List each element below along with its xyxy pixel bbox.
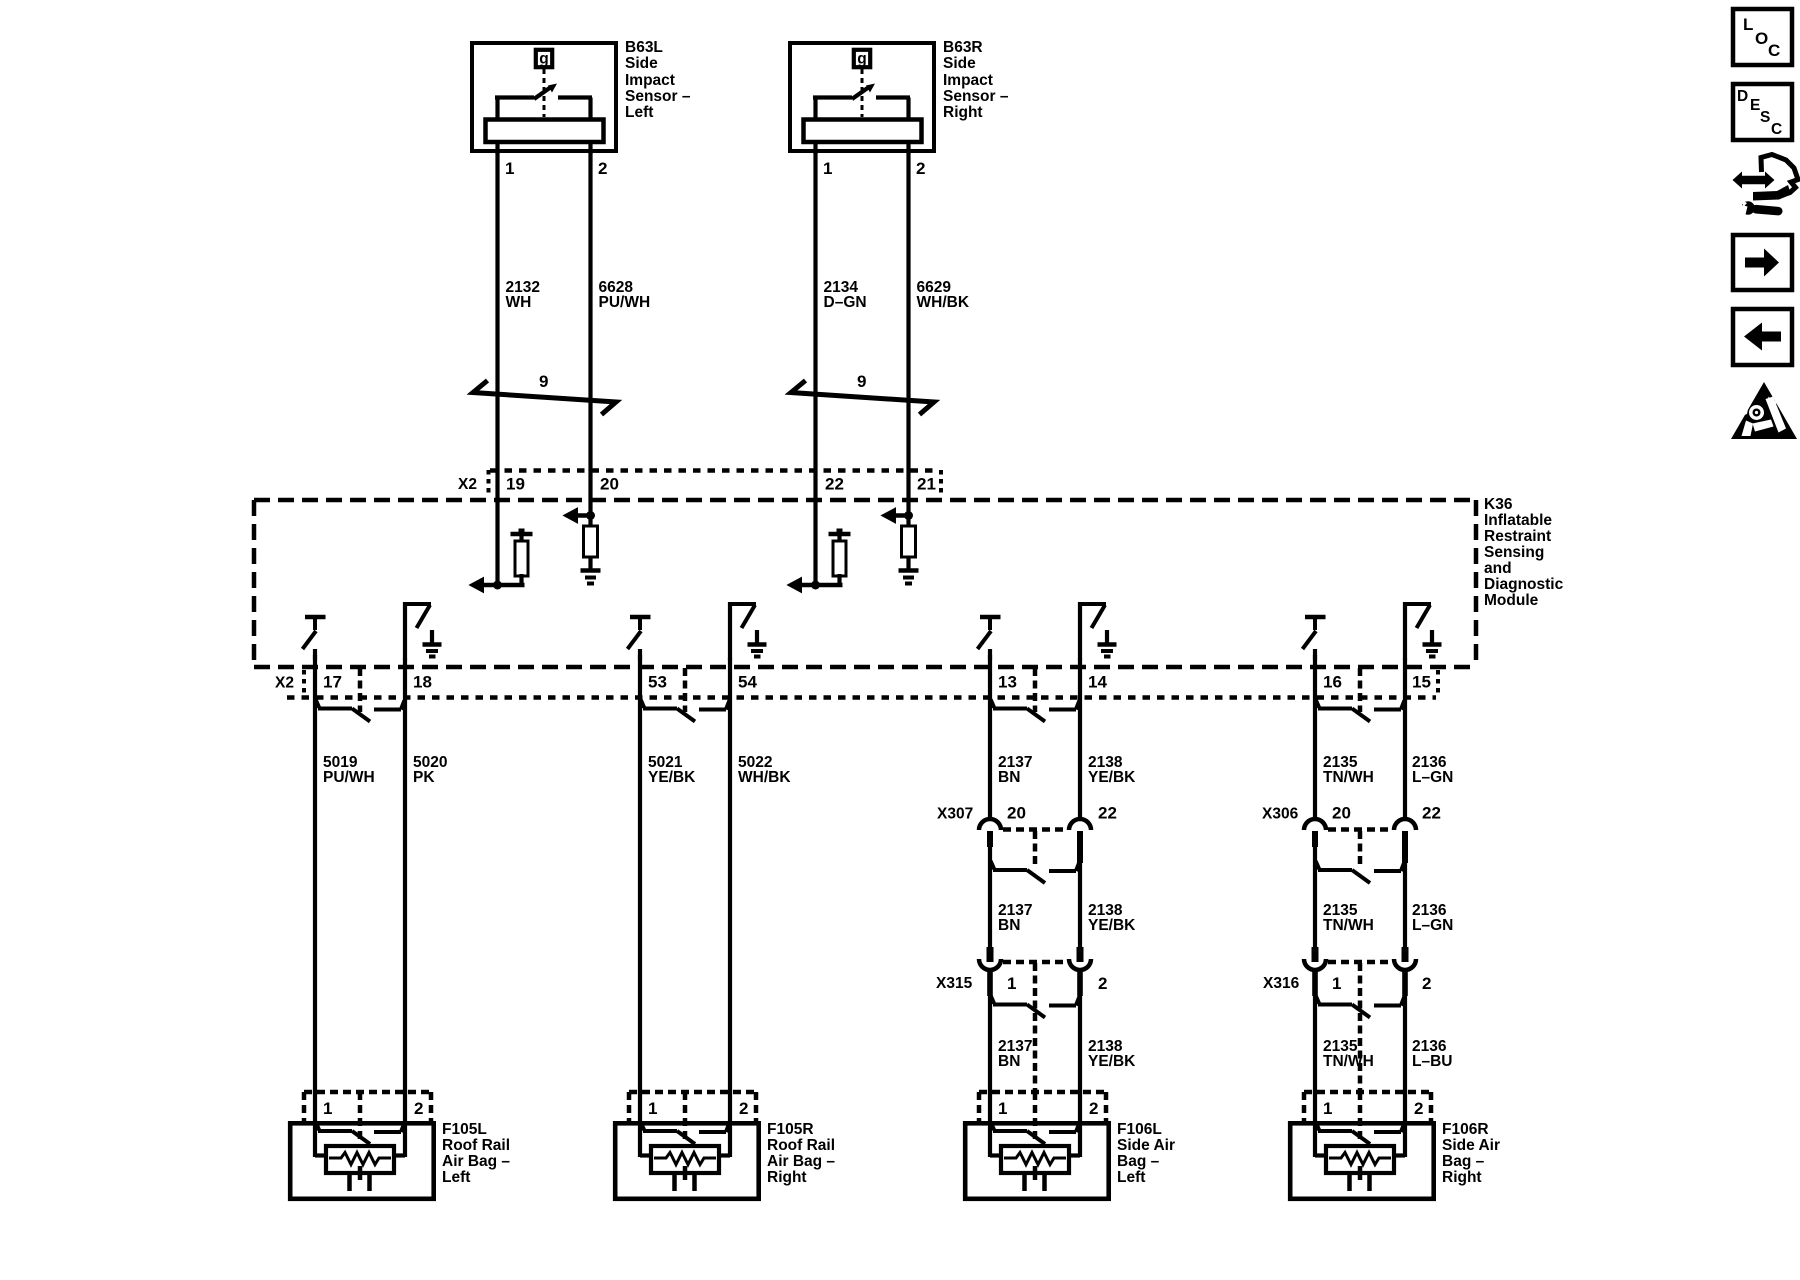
wire label 2137 BN row A: [998, 754, 1032, 786]
connector X2 lower left separator: [302, 670, 306, 694]
svg-text:YE/BK: YE/BK: [1088, 1053, 1136, 1070]
svg-text:22: 22: [1098, 804, 1117, 823]
svg-text:19: 19: [506, 475, 525, 494]
wire label 2135 TN/WH row C: [1323, 1038, 1374, 1070]
wire 2135 TN/WH segment 1: [1313, 655, 1317, 819]
X2 lower centre dashes col3: [1033, 668, 1038, 712]
svg-text:Bag –: Bag –: [1442, 1153, 1485, 1170]
icon forward arrow box: [1733, 235, 1792, 290]
svg-text:X2: X2: [275, 675, 294, 692]
svg-text:Sensor –: Sensor –: [625, 88, 691, 105]
svg-text:Side Air: Side Air: [1442, 1137, 1500, 1154]
X2 lower shorting bar col2: [641, 700, 730, 722]
connector X2 upper left separator: [487, 470, 491, 496]
svg-text:2: 2: [1422, 974, 1431, 993]
wire label 5019 PU/WH: [323, 754, 375, 786]
svg-text:L–GN: L–GN: [1412, 769, 1453, 786]
X2 lower shorting bar col3: [991, 700, 1080, 722]
svg-text:21: 21: [917, 475, 936, 494]
wire label 6629 WH/BK: [917, 279, 970, 311]
svg-text:Right: Right: [767, 1169, 807, 1186]
svg-text:X316: X316: [1263, 975, 1300, 992]
wire 2134 D-GN (B63R pin1 to K36 pin22): [813, 153, 817, 585]
svg-text:D: D: [1737, 88, 1748, 105]
twisted pair crossing 9 (left): [473, 381, 616, 415]
svg-text:F105R: F105R: [767, 1121, 814, 1138]
svg-text:Restraint: Restraint: [1484, 528, 1551, 545]
wire 2136 L-GN segment 1: [1403, 658, 1407, 819]
svg-text:Sensor –: Sensor –: [943, 88, 1009, 105]
svg-text:B63L: B63L: [625, 39, 663, 56]
svg-text:22: 22: [825, 475, 844, 494]
wire 5022 WH/BK: [728, 658, 732, 1094]
svg-text:BN: BN: [998, 769, 1020, 786]
K36 internal resistor to ground (pin 20): [564, 508, 601, 584]
icon DESC box: [1733, 84, 1792, 140]
wire 2138 YE/BK segment 3: [1078, 972, 1082, 1094]
wire label 2132 WH: [506, 279, 540, 311]
wire label 5022 WH/BK: [738, 754, 791, 786]
svg-text:O: O: [1755, 29, 1768, 48]
wire 2136 L-BU segment 3: [1403, 972, 1407, 1094]
svg-text:Roof Rail: Roof Rail: [442, 1137, 510, 1154]
svg-text:F105L: F105L: [442, 1121, 487, 1138]
icon LOC box: [1733, 9, 1792, 65]
svg-text:L–BU: L–BU: [1412, 1053, 1452, 1070]
twisted pair crossing 9 (right): [791, 381, 934, 415]
svg-text:X307: X307: [937, 806, 973, 823]
K36 module dashed box: [254, 500, 1476, 667]
svg-text:S: S: [1760, 109, 1770, 126]
svg-text:9: 9: [857, 372, 866, 391]
label B63L: [625, 39, 691, 121]
svg-text:Air Bag –: Air Bag –: [442, 1153, 510, 1170]
wire 2137 BN segment 1: [988, 655, 992, 819]
wire label 2136 L-GN row A: [1412, 754, 1453, 786]
wire label 2138 YE/BK row B: [1088, 902, 1136, 934]
K36 internal resistor with terminal (pin 22): [788, 529, 851, 593]
K36 deploy switch high side (pin 17): [303, 617, 326, 660]
svg-text:Sensing: Sensing: [1484, 544, 1544, 561]
wire label 2134 D-GN: [824, 279, 867, 311]
wire 6629 WH/BK (B63R pin2 to K36 pin21): [906, 153, 910, 517]
svg-text:PU/WH: PU/WH: [599, 294, 651, 311]
sensor B63L Side Impact Sensor Left: [472, 43, 616, 154]
svg-text:18: 18: [413, 673, 432, 692]
icon arrows and wrench: [1733, 155, 1799, 216]
svg-text:2: 2: [1098, 974, 1107, 993]
svg-text:TN/WH: TN/WH: [1323, 1053, 1374, 1070]
wire 2135 TN/WH segment 3: [1313, 972, 1317, 1094]
label F105R: [767, 1121, 835, 1186]
svg-text:L–GN: L–GN: [1412, 917, 1453, 934]
sensor B63R Side Impact Sensor Right: [790, 43, 934, 154]
icon back arrow box: [1733, 309, 1792, 365]
K36 deploy switch high side (pin 16): [1303, 617, 1326, 660]
wire label 2138 YE/BK row C: [1088, 1038, 1136, 1070]
wire label 2138 YE/BK row A: [1088, 754, 1136, 786]
svg-text:Left: Left: [442, 1169, 470, 1186]
wire 5019 PU/WH: [313, 655, 317, 1094]
connector X306: [1304, 819, 1416, 883]
connector X2 lower dotted line: [287, 695, 1436, 700]
svg-text:X315: X315: [936, 975, 973, 992]
svg-text:B63R: B63R: [943, 39, 983, 56]
svg-text:20: 20: [600, 475, 619, 494]
svg-text:WH/BK: WH/BK: [917, 294, 970, 311]
wire 6628 PU/WH (B63L pin2 to K36 pin20): [588, 153, 592, 517]
wire 2135 TN/WH segment 2: [1313, 831, 1317, 950]
X2 lower centre dashes col1: [358, 668, 363, 712]
svg-text:Side: Side: [625, 55, 658, 72]
svg-text:53: 53: [648, 673, 667, 692]
svg-text:9: 9: [539, 372, 548, 391]
connector X307: [979, 819, 1091, 883]
X2 lower shorting bar col4: [1316, 700, 1405, 722]
svg-text:PU/WH: PU/WH: [323, 769, 375, 786]
svg-text:X306: X306: [1262, 806, 1299, 823]
svg-text:F106R: F106R: [1442, 1121, 1489, 1138]
svg-text:1: 1: [505, 159, 514, 178]
svg-text:Impact: Impact: [625, 72, 675, 89]
wire label 2137 BN row B: [998, 902, 1032, 934]
wire 5020 PK: [403, 658, 407, 1094]
svg-text:L: L: [1743, 15, 1753, 34]
wire 2136 L-GN segment 2: [1403, 831, 1407, 950]
K36 deploy switch low side with ground (pin 14): [1078, 602, 1117, 660]
svg-text:Side Air: Side Air: [1117, 1137, 1175, 1154]
svg-text:2: 2: [598, 159, 607, 178]
air bag F105R Roof Rail Air Bag Right: [615, 1090, 759, 1199]
svg-text:WH/BK: WH/BK: [738, 769, 791, 786]
K36 deploy switch low side with ground (pin 54): [728, 602, 767, 660]
svg-text:Right: Right: [943, 104, 983, 121]
svg-text:TN/WH: TN/WH: [1323, 917, 1374, 934]
svg-text:BN: BN: [998, 1053, 1020, 1070]
wire label 2136 L-GN row B: [1412, 902, 1453, 934]
svg-text:TN/WH: TN/WH: [1323, 769, 1374, 786]
K36 internal resistor with terminal (pin 19): [470, 529, 533, 593]
svg-text:PK: PK: [413, 769, 435, 786]
svg-text:C: C: [1768, 41, 1780, 60]
K36 deploy switch low side with ground (pin 18): [403, 602, 442, 660]
connector X315: [979, 947, 1091, 1092]
svg-text:Diagnostic: Diagnostic: [1484, 576, 1564, 593]
wire 2138 YE/BK segment 2: [1078, 831, 1082, 950]
icon air bag warning triangle: [1731, 382, 1797, 439]
wire 2137 BN segment 3: [988, 972, 992, 1094]
svg-text:YE/BK: YE/BK: [1088, 917, 1136, 934]
wire 2137 BN segment 2: [988, 831, 992, 950]
svg-text:1: 1: [823, 159, 832, 178]
svg-text:1: 1: [1332, 974, 1341, 993]
svg-text:X2: X2: [458, 476, 477, 493]
svg-text:Left: Left: [625, 104, 653, 121]
K36 deploy switch low side with ground (pin 15): [1403, 602, 1442, 660]
svg-text:17: 17: [323, 673, 342, 692]
X2 lower centre dashes col2: [683, 668, 688, 712]
connector X2 lower right separator: [1436, 670, 1440, 694]
K36 deploy switch high side (pin 53): [628, 617, 651, 660]
svg-text:13: 13: [998, 673, 1017, 692]
svg-text:YE/BK: YE/BK: [648, 769, 696, 786]
wire 5021 YE/BK: [638, 655, 642, 1094]
wire label 6628 PU/WH: [599, 279, 651, 311]
svg-text:Inflatable: Inflatable: [1484, 512, 1552, 529]
svg-text:Side: Side: [943, 55, 976, 72]
svg-text:Left: Left: [1117, 1169, 1145, 1186]
svg-text:Module: Module: [1484, 592, 1539, 609]
svg-text:14: 14: [1088, 673, 1107, 692]
K36 deploy switch high side (pin 13): [978, 617, 1001, 660]
wire label 2137 BN row C: [998, 1038, 1032, 1070]
K36 internal resistor to ground (pin 21): [882, 508, 919, 584]
wire 2132 WH (B63L pin1 to K36 pin19): [495, 153, 499, 585]
svg-text:Bag –: Bag –: [1117, 1153, 1160, 1170]
wire label 2135 TN/WH row A: [1323, 754, 1374, 786]
svg-text:22: 22: [1422, 804, 1441, 823]
svg-text:54: 54: [738, 673, 757, 692]
svg-text:20: 20: [1332, 804, 1351, 823]
svg-text:D–GN: D–GN: [824, 294, 867, 311]
connector X2 upper right separator: [939, 470, 943, 496]
wire label 2135 TN/WH row B: [1323, 902, 1374, 934]
connector X316: [1304, 947, 1416, 1092]
svg-text:Right: Right: [1442, 1169, 1482, 1186]
svg-text:and: and: [1484, 560, 1512, 577]
svg-text:16: 16: [1323, 673, 1342, 692]
svg-text:E: E: [1750, 97, 1760, 114]
wire label 2136 L-BU row C: [1412, 1038, 1452, 1070]
X2 lower shorting bar col1: [316, 700, 405, 722]
label K36 Inflatable Restraint Sensing and Diagnostic Module: [1484, 496, 1564, 609]
label F105L: [442, 1121, 510, 1186]
svg-text:C: C: [1771, 121, 1782, 138]
wire 2138 YE/BK segment 1: [1078, 658, 1082, 819]
svg-text:K36: K36: [1484, 496, 1513, 513]
X2 lower centre dashes col4: [1358, 668, 1363, 712]
svg-text:20: 20: [1007, 804, 1026, 823]
svg-text:Roof Rail: Roof Rail: [767, 1137, 835, 1154]
svg-text:15: 15: [1412, 673, 1431, 692]
wire label 5021 YE/BK: [648, 754, 696, 786]
svg-text:BN: BN: [998, 917, 1020, 934]
svg-text:2: 2: [916, 159, 925, 178]
label F106R: [1442, 1121, 1500, 1186]
air bag F105L Roof Rail Air Bag Left: [290, 1090, 434, 1199]
air bag F106L Side Air Bag Left: [965, 1090, 1108, 1199]
svg-text:1: 1: [1007, 974, 1016, 993]
air bag F106R Side Air Bag Right: [1290, 1090, 1434, 1199]
svg-text:F106L: F106L: [1117, 1121, 1162, 1138]
svg-text:WH: WH: [506, 294, 532, 311]
svg-text:YE/BK: YE/BK: [1088, 769, 1136, 786]
label B63R: [943, 39, 1009, 121]
svg-text:Air Bag –: Air Bag –: [767, 1153, 835, 1170]
wire label 5020 PK: [413, 754, 447, 786]
svg-text:Impact: Impact: [943, 72, 993, 89]
connector X2 upper dotted line: [490, 468, 938, 473]
label F106L: [1117, 1121, 1175, 1186]
